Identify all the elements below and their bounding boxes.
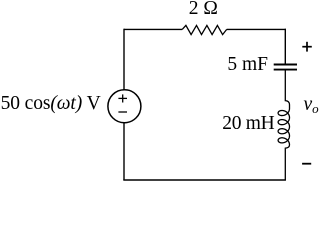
inductor value label 20 mH — [222, 113, 274, 135]
wire right upper (top corner down to capacitor) — [284, 29, 286, 64]
wire top-right segment — [227, 28, 286, 30]
plus polarity label (output) — [302, 46, 312, 48]
minus polarity label (output) — [302, 163, 311, 165]
voltage source plus sign — [118, 97, 127, 99]
output voltage label vo — [304, 94, 319, 117]
wire left upper (top corner to source) — [123, 29, 125, 90]
source value label 50 cos(wt) V — [1, 93, 101, 115]
resistor value label 2 ohm — [189, 0, 218, 20]
voltage source minus sign — [118, 111, 127, 113]
wire left lower (source to bottom corner) — [123, 123, 125, 180]
capacitor C1 5 mF bottom plate — [274, 69, 297, 71]
capacitor C1 5 mF top plate — [274, 64, 297, 66]
inductor L1 20 mH coil with lead wires — [278, 70, 289, 180]
voltage source VS circle — [108, 90, 141, 123]
capacitor value label 5 mF — [227, 54, 268, 76]
wire bottom segment — [123, 179, 286, 181]
resistor R1 2 ohm zigzag — [182, 25, 227, 34]
wire top-left segment — [124, 28, 182, 30]
